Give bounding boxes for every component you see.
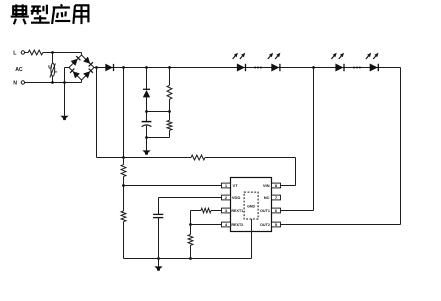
resistor R2 (121, 211, 126, 222)
svg-text:OUT2: OUT2 (260, 223, 270, 227)
resistor R6 (NEXT1) (201, 208, 211, 213)
wire OUT1 vertical (313, 68, 315, 211)
resistor R5 (VIN series) (191, 155, 205, 160)
wire GND pad down (251, 219, 253, 259)
ellipsis dots string1 (254, 67, 262, 69)
wire VDD net horizontal (pin2) (159, 197, 222, 199)
IC U1 pin labels (231, 183, 270, 227)
IC U1 pin boxes 1-8 (222, 183, 281, 227)
node N/ground-column junction (63, 81, 66, 84)
svg-text:REXT1: REXT1 (231, 209, 243, 213)
wire mid rail right part (205, 157, 296, 159)
wire VIN corner down (295, 158, 297, 186)
wire NEXT1 corner down (190, 211, 192, 225)
wire down to ground G2 (146, 138, 148, 151)
wire node D down (169, 68, 171, 86)
bridge diode D-topright (top to right) (83, 57, 93, 67)
varistor RV body (51, 63, 55, 76)
wire node to cap C1 (146, 112, 148, 122)
wire left column upper (123, 68, 125, 165)
wire left column mid (123, 177, 125, 212)
node D rail/res-drop (168, 66, 171, 69)
terminal N (21, 81, 24, 84)
svg-text:VDD: VDD (232, 195, 241, 200)
svg-text:VIN: VIN (263, 183, 270, 188)
resistor R4 (167, 120, 172, 130)
node E rail/LED junction OUT1 (312, 66, 315, 69)
op IC U1 body (231, 178, 272, 232)
wire R3 to node (169, 99, 171, 111)
node NEXT1/NEXT2 junction (189, 223, 192, 226)
resistor R3 (167, 85, 172, 99)
wire D2 to node (146, 97, 148, 111)
svg-text:REXT2: REXT2 (231, 223, 243, 227)
wire R7 to bottom rail (190, 245, 192, 258)
svg-text:NC: NC (264, 195, 270, 200)
resistor R1 (121, 165, 126, 177)
node C rail/zener-drop (145, 66, 148, 69)
wire OUT1 horizontal (pin6) (281, 210, 314, 212)
wire top rail (94, 67, 401, 69)
node R7/bottom-rail junction (189, 257, 192, 260)
capacitor C1 plates (142, 122, 152, 127)
bridge diode D-topleft (left to top) (71, 56, 81, 66)
wire node to R4 (169, 112, 171, 121)
wire N line (25, 82, 82, 84)
wire R4 bottom (169, 130, 171, 137)
terminal L (21, 51, 24, 54)
LED LED4 (370, 64, 379, 72)
wire bridge left vertex stub (65, 67, 70, 69)
wire ground column (64, 68, 66, 116)
wire NEXT1 stub (pin3) (211, 210, 222, 212)
wire C2 bottom (158, 218, 160, 259)
node B rail/left-column (122, 66, 125, 69)
ground symbol G3 (signal) (154, 266, 162, 270)
wire cross link lower (147, 137, 170, 139)
diode D1 rectified output (105, 64, 113, 72)
LED LED3 (335, 64, 344, 72)
node C2/bottom-rail junction (157, 257, 160, 260)
wire NEXT1 to corner (191, 210, 202, 212)
svg-text:N: N (13, 80, 17, 86)
wire OUT2 vertical (400, 68, 402, 225)
wire cross link upper (147, 111, 170, 113)
capacitor C2 plates (153, 214, 163, 217)
svg-text:OUT1: OUT1 (260, 209, 270, 213)
wire cap C1 bottom (146, 126, 148, 138)
wire L terminal to fuse resistor (25, 52, 29, 54)
wire varistor bottom lead (52, 76, 54, 82)
wire VT net (pin1) (124, 185, 222, 187)
node A rail/VIN-drop (95, 66, 98, 69)
wire NEXT2 net (pin4) (191, 224, 222, 226)
wire VDD net vertical (158, 198, 160, 215)
node N/varistor junction (51, 81, 54, 84)
ground symbol G2 (cap bank) (142, 150, 150, 154)
LED LED2 emission arrows (268, 53, 281, 59)
label L (13, 50, 17, 56)
wire fuse to bridge top corner (43, 52, 82, 54)
wire node C down (146, 68, 148, 91)
node L/varistor junction (51, 51, 54, 54)
node mid-rail/left-column junction (122, 156, 125, 159)
node zener/cap junction (145, 110, 148, 113)
wire mid rail left part (97, 157, 192, 159)
node R3/R4 junction (168, 110, 171, 113)
ground symbol G1 (bridge) (60, 116, 68, 120)
wire up to bridge bottom vertex (81, 80, 83, 83)
node cap-bottom junction (145, 136, 148, 139)
LED LED1 emission arrows (233, 53, 246, 59)
bridge diode D-bottomleft (bottom to left) (70, 69, 80, 79)
wire left column lower (123, 222, 125, 259)
label N (13, 80, 17, 86)
label AC (15, 67, 23, 73)
LED LED4 emission arrows (366, 53, 379, 59)
wire into pin8 VIN (281, 185, 296, 187)
wire node A down (96, 68, 98, 158)
wire down to bridge top vertex (81, 53, 83, 56)
diode D2 clamp (143, 89, 150, 97)
LED LED3 emission arrows (331, 53, 344, 59)
wire OUT2 horizontal (pin5) (281, 224, 401, 226)
varistor RV diagonal (50, 64, 56, 78)
ellipsis dots string2 (353, 67, 361, 69)
wire NEXT junction down (190, 225, 192, 235)
varistor RV right tick (55, 71, 57, 73)
svg-text:AC: AC (15, 67, 23, 73)
bridge rectifier BR1 diamond (69, 55, 94, 80)
node VT junction (122, 184, 125, 187)
LED LED1 (237, 64, 246, 72)
bridge diode D-bottomright (bottom to right) (83, 69, 93, 79)
title text 典型应用 (Typical Application) (11, 4, 89, 24)
IC U1 GND exposed pad (dashed) (244, 192, 258, 219)
varistor RV U mark (49, 65, 52, 68)
wire ground G3 stub (158, 259, 160, 267)
svg-text:GND: GND (247, 204, 255, 208)
resistor R7 (NEXT set) (188, 235, 193, 246)
wire bottom ground rail (124, 258, 252, 260)
svg-text:VT: VT (233, 183, 239, 188)
wire varistor top lead (52, 53, 54, 64)
fuse resistor RF (28, 50, 43, 55)
LED LED2 (271, 64, 280, 72)
